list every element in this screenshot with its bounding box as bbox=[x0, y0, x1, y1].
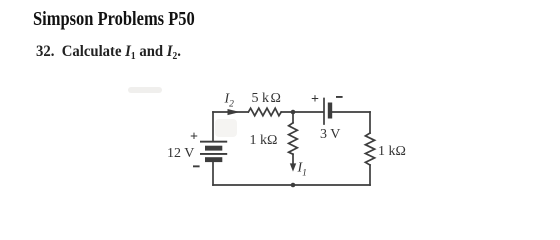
scan smudge faint 2 bbox=[215, 119, 237, 137]
wire top right segment bbox=[332, 111, 370, 113]
I2 current arrowhead bbox=[228, 109, 241, 115]
node junction bottom bbox=[291, 183, 296, 188]
wire bottom bbox=[213, 184, 370, 186]
problem text bbox=[36, 43, 181, 62]
wire middle branch top bbox=[292, 112, 294, 123]
battery B2 3V thick plate bbox=[328, 103, 332, 119]
svg-text:3 V: 3 V bbox=[320, 127, 340, 142]
battery B1 12V thick plate 2 bbox=[205, 157, 222, 162]
battery B1 12V long plate 2 bbox=[200, 153, 227, 155]
battery B1 12V thick plate 1 bbox=[205, 146, 222, 151]
svg-text:I1: I1 bbox=[297, 161, 307, 179]
resistor 5k zigzag bbox=[248, 108, 281, 116]
wire left vertical bottom segment bbox=[212, 162, 214, 185]
resistor right 1k zigzag bbox=[365, 133, 374, 165]
wire left vertical top segment bbox=[212, 112, 214, 141]
svg-text:12 V: 12 V bbox=[167, 146, 194, 161]
svg-text:+: + bbox=[311, 92, 319, 107]
battery B2 3V long plate bbox=[323, 99, 325, 125]
svg-text:1 kΩ: 1 kΩ bbox=[250, 133, 278, 148]
wire right vertical bottom segment bbox=[369, 165, 371, 185]
svg-text:5 kΩ: 5 kΩ bbox=[252, 91, 281, 106]
battery B1 12V long plate 1 bbox=[200, 141, 227, 143]
wire middle branch bottom with I1 arrow line bbox=[292, 154, 294, 164]
node junction top bbox=[291, 110, 296, 115]
scan smudge faint bbox=[128, 87, 162, 93]
I1 current arrowhead bbox=[290, 163, 296, 171]
label minus B2 bbox=[336, 96, 343, 98]
svg-text:1 kΩ: 1 kΩ bbox=[378, 144, 406, 159]
wire top left segment bbox=[213, 111, 248, 113]
label minus B1 bbox=[193, 165, 200, 167]
wire top middle segment bbox=[281, 111, 323, 113]
wire right vertical top segment bbox=[369, 112, 371, 133]
resistor middle 1k zigzag bbox=[289, 123, 298, 154]
svg-text:+: + bbox=[190, 130, 198, 145]
title bbox=[33, 9, 195, 31]
svg-text:I2: I2 bbox=[224, 92, 235, 110]
